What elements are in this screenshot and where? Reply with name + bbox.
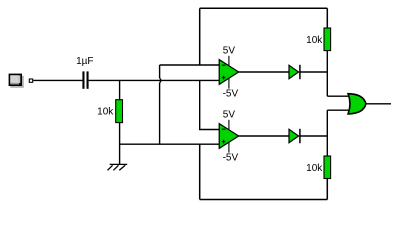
svg-text:1µF: 1µF — [76, 56, 93, 67]
svg-text:10k: 10k — [306, 35, 323, 46]
svg-text:-5V: -5V — [223, 89, 239, 100]
svg-text:5V: 5V — [223, 46, 236, 57]
svg-text:5V: 5V — [223, 110, 236, 121]
svg-text:-5V: -5V — [223, 153, 239, 164]
svg-text:10k: 10k — [97, 107, 114, 118]
svg-text:10k: 10k — [306, 163, 323, 174]
